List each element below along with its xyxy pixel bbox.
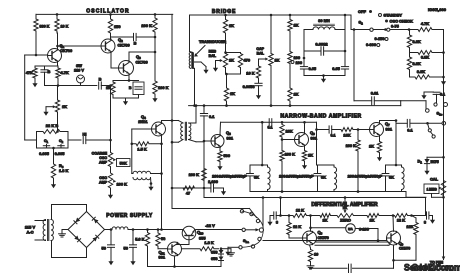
- wire Q2 emitter to Q3 base: [111, 53, 119, 69]
- diode D1 IN75: [418, 159, 440, 168]
- svg-text:OSC: OSC: [99, 176, 107, 180]
- svg-text:CK760: CK760: [136, 60, 148, 65]
- potentiometer CAL: [430, 176, 446, 197]
- svg-text:2N81: 2N81: [138, 119, 148, 124]
- node 12K node left: [288, 214, 291, 217]
- capacitor B osc1: [41, 66, 51, 86]
- svg-text:OFF: OFF: [358, 9, 367, 14]
- node Q4 base rail: [131, 143, 134, 146]
- transistor Q3: [119, 54, 148, 76]
- wire T2 secondary bottom: [189, 140, 204, 142]
- wire diff bottom: [311, 267, 348, 269]
- node bridge rail junctions: [224, 14, 346, 17]
- svg-text:1K: 1K: [294, 23, 299, 28]
- svg-text:100: 100: [296, 60, 303, 65]
- svg-text:653: 653: [211, 256, 218, 261]
- wire Q2 collector: [110, 38, 112, 41]
- ground transducer: [203, 67, 208, 74]
- transformer power primary: [43, 220, 45, 241]
- resistor 1K Q6 emitter: [302, 146, 313, 162]
- wire diff phase line: [263, 239, 387, 242]
- wire Q1 base: [25, 54, 48, 56]
- svg-text:1K: 1K: [106, 85, 111, 90]
- wire Q10 base: [177, 240, 190, 245]
- svg-text:470: 470: [244, 58, 251, 63]
- wire Q3 emitter gnd: [113, 95, 139, 99]
- potentiometer 1K osc: [46, 86, 67, 114]
- switch S1a arc: [242, 211, 263, 247]
- transistor Q1: [48, 43, 73, 63]
- svg-text:0.0082: 0.0082: [315, 42, 328, 47]
- wire T2 primary bottom: [171, 140, 183, 144]
- ground 0.0056: [256, 92, 261, 99]
- svg-text:500: 500: [224, 153, 231, 158]
- svg-text:OSC: OSC: [99, 156, 107, 160]
- svg-text:12K: 12K: [406, 224, 413, 229]
- rectifier bridge diamond: [68, 212, 105, 248]
- wire Q5 collector: [219, 122, 222, 134]
- svg-text:HI: HI: [83, 132, 87, 137]
- node choke junctions: [110, 228, 163, 231]
- svg-text:CK760: CK760: [60, 48, 72, 53]
- wire transducer bottom: [193, 68, 195, 105]
- wire -12V out: [196, 229, 242, 231]
- ground 50 first: [108, 258, 113, 265]
- contact S1a c3: [256, 219, 259, 222]
- svg-text:NARROW-BAND AMPLIFIER: NARROW-BAND AMPLIFIER: [280, 114, 361, 120]
- potentiometer OSC AMP 100K: [99, 170, 127, 192]
- wire Q9 base: [386, 238, 388, 241]
- svg-text:B: B: [134, 41, 137, 46]
- node tank1 feed: [261, 121, 264, 124]
- resistor 470: [238, 53, 250, 70]
- ground 0.05 caps: [321, 76, 326, 83]
- svg-text:0-100: 0-100: [359, 227, 369, 232]
- wire Q1 emitter node: [35, 62, 58, 66]
- resistor 1K diff right: [366, 214, 393, 223]
- svg-text:1K: 1K: [308, 153, 313, 158]
- svg-text:5K: 5K: [321, 175, 326, 180]
- wire tank left leg: [303, 30, 305, 49]
- resistor 10K bridge: [246, 59, 260, 83]
- svg-text:3.3K: 3.3K: [413, 61, 421, 66]
- ground 8 right: [430, 216, 435, 224]
- capacitor 0.0056: [243, 83, 263, 92]
- resistor 3.3K v2: [407, 53, 421, 78]
- capacitor B Q2 out: [111, 33, 156, 45]
- wire right rail: [443, 30, 445, 260]
- resistor 330K: [34, 14, 50, 33]
- ground Q8 emitter: [307, 264, 314, 270]
- svg-text:100 K: 100 K: [285, 152, 296, 157]
- svg-text:RES: RES: [209, 50, 217, 54]
- svg-text:1K: 1K: [370, 218, 375, 223]
- wire interstage rail1: [221, 121, 317, 123]
- wire emitter node: [113, 79, 139, 82]
- resistor 500 Q5 emitter: [218, 148, 230, 164]
- wire emitter coupling: [315, 242, 390, 245]
- wire oscillator top rail: [36, 13, 173, 15]
- transistor Q10: [182, 226, 206, 240]
- node twin-T bottom junction: [52, 147, 55, 150]
- svg-text:12 K: 12 K: [296, 208, 304, 213]
- svg-text:12 K: 12 K: [293, 224, 301, 229]
- svg-text:6.8K: 6.8K: [421, 55, 429, 60]
- svg-text:10 K: 10 K: [61, 25, 69, 29]
- svg-text:0.1: 0.1: [209, 114, 215, 119]
- tank circuit 2 200uuF 5K: [279, 165, 336, 192]
- wire Q7 collector: [380, 119, 398, 123]
- transformer T2 coupling: [179, 121, 191, 141]
- capacitor 50 second: [124, 230, 137, 260]
- potentiometer COARSE OSC AMP 50K: [92, 151, 117, 170]
- contact 0-300: [366, 42, 380, 47]
- svg-text:47: 47: [186, 191, 190, 196]
- svg-text:330 K: 330 K: [40, 25, 50, 29]
- wire transducer ground stub: [195, 62, 207, 67]
- svg-text:1K: 1K: [229, 58, 234, 63]
- wire cap to osc amp rail: [86, 139, 111, 141]
- svg-text:5K: 5K: [254, 175, 259, 180]
- wire bridge mid bottoms: [225, 68, 240, 76]
- wire Q6 collector: [303, 121, 306, 133]
- svg-text:100 K: 100 K: [189, 172, 200, 177]
- svg-text:CK760: CK760: [118, 43, 130, 48]
- switch S2 wire: [351, 20, 409, 32]
- svg-text:0.01: 0.01: [371, 91, 379, 96]
- svg-text:K=X1,000: K=X1,000: [428, 7, 447, 12]
- svg-text:Q8: Q8: [318, 230, 323, 236]
- svg-text:200 K: 200 K: [141, 23, 152, 28]
- wire Q4 emitter rail: [160, 136, 163, 230]
- resistor 12K horiz right: [393, 214, 412, 223]
- diode bridge TR: [92, 217, 98, 223]
- wire to osc rail: [101, 85, 110, 87]
- ground right rail top: [441, 78, 446, 85]
- svg-text:S1a: S1a: [243, 238, 249, 244]
- arrow -12V osc rail: [152, 95, 157, 102]
- resistor 100K osc: [153, 80, 169, 95]
- node Q5 base: [203, 140, 206, 143]
- svg-text:5K: 5K: [389, 175, 394, 180]
- svg-text:1K: 1K: [229, 23, 234, 28]
- svg-text:CAP: CAP: [256, 47, 264, 51]
- wire oscillator long rail: [171, 14, 173, 188]
- wire 330K to base node: [35, 33, 37, 55]
- resistor 1K Q7 emitter: [369, 136, 382, 154]
- ground S1c cap: [421, 92, 426, 99]
- svg-text:50: 50: [124, 246, 129, 251]
- node stage3 base node: [354, 128, 359, 131]
- wire left rail: [25, 55, 37, 140]
- svg-text:301: 301: [159, 255, 166, 260]
- resistor 47K: [26, 66, 37, 80]
- capacitor 0.1 output: [407, 119, 413, 132]
- capacitor 2000: [204, 179, 224, 192]
- wire diff input riser: [279, 198, 282, 217]
- resistor 1K bridge right-top: [288, 15, 299, 38]
- diode bridge TL: [74, 218, 80, 224]
- capacitor 0.05 right: [332, 66, 348, 76]
- svg-text:47K: 47K: [26, 70, 33, 75]
- resistor 10K: [55, 14, 69, 33]
- svg-text:STANDBY: STANDBY: [384, 13, 403, 18]
- svg-text:110 V: 110 V: [74, 68, 84, 73]
- contact S1c right: [442, 122, 446, 126]
- svg-text:0-150: 0-150: [375, 36, 385, 41]
- transformer T1 feedback winding: [132, 171, 163, 185]
- node emitter bottom: [57, 84, 60, 87]
- svg-text:A-C: A-C: [26, 230, 33, 235]
- tank circuit 3 200uuF 5K: [348, 165, 404, 192]
- wire Q11 collector: [177, 243, 178, 245]
- ground at 1K pot wiper: [43, 109, 48, 116]
- section label DIFFERENTIAL AMPLIFIER: [311, 202, 378, 208]
- ground S1a: [225, 249, 230, 256]
- potentiometer ZERO 1K: [336, 198, 366, 223]
- svg-text:10 K: 10 K: [246, 71, 254, 76]
- svg-text:1K: 1K: [294, 92, 299, 97]
- svg-text:S1c: S1c: [437, 111, 443, 117]
- wire pot to twin-T: [56, 113, 59, 133]
- resistor 3.3K v1: [407, 30, 421, 53]
- wire Q6 base: [281, 138, 295, 141]
- wire cap bal bottom: [270, 66, 272, 106]
- svg-text:8: 8: [276, 220, 279, 225]
- resistor 200K: [141, 14, 157, 37]
- wire 0.05 bottom link: [304, 74, 345, 77]
- wire Q9 feedback: [392, 235, 416, 262]
- wire T2 secondary top riser: [189, 104, 198, 123]
- resistor 100K stage1 body: [202, 160, 206, 188]
- node osc check joins bridge rail: [400, 101, 402, 106]
- resistor 4.7K: [408, 21, 444, 32]
- wire supply bottom: [148, 246, 222, 267]
- svg-text:3.3K: 3.3K: [417, 69, 425, 74]
- resistor 10 Q8 emitter: [308, 245, 318, 264]
- node 47 junction: [203, 187, 206, 190]
- ground res bal wiper: [213, 65, 218, 72]
- wire tank3 feed: [395, 121, 398, 167]
- wire Q9 collector: [392, 216, 395, 232]
- resistor 150: [108, 14, 120, 39]
- svg-text:8: 8: [424, 220, 427, 225]
- svg-text:653: 653: [211, 250, 218, 255]
- resistor R3 1.8K: [51, 148, 68, 181]
- capacitor 8 left: [272, 212, 289, 225]
- node 12K right node: [410, 214, 413, 217]
- transistor Q2: [101, 37, 130, 53]
- svg-text:IN75: IN75: [431, 159, 440, 164]
- wire Q4 base rail down: [131, 144, 133, 174]
- svg-text:12 K: 12 K: [397, 218, 405, 223]
- wire Q1 collector to 10K: [57, 33, 59, 49]
- capacitor 0.1 input stage1: [200, 104, 215, 188]
- node D1 junction: [442, 156, 445, 159]
- wire 200K rail down: [154, 37, 156, 80]
- wire output coupling: [396, 122, 407, 124]
- svg-text:Q9: Q9: [399, 241, 404, 247]
- wire Q9 emitter: [393, 245, 395, 268]
- resistor 5.6K: [135, 230, 150, 267]
- contact 0-150: [375, 36, 388, 41]
- capacitor 0.01: [354, 91, 401, 105]
- label S1c: [437, 111, 443, 117]
- wire osc amp select: [172, 188, 257, 218]
- svg-text:MA: MA: [348, 227, 353, 231]
- resistor 6.8K: [410, 51, 445, 60]
- svg-text:1K: 1K: [369, 144, 374, 149]
- switch S1a pole: [243, 228, 264, 244]
- wire Q4 base: [132, 129, 152, 144]
- diode 653 upper: [211, 249, 224, 255]
- resistor 12K horiz left: [289, 208, 311, 218]
- svg-text:10K: 10K: [286, 129, 293, 134]
- svg-text:C2: C2: [59, 139, 64, 144]
- wire transformer primary leads: [35, 221, 44, 241]
- diode bridge BR: [93, 235, 99, 241]
- contact STANDBY: [379, 13, 403, 18]
- capacitor C2 0.005: [55, 139, 66, 156]
- wire tank left leg lower: [303, 51, 306, 66]
- watermark: [404, 263, 460, 273]
- ground Q3 emitter: [123, 98, 128, 105]
- svg-text:1 MEG: 1 MEG: [427, 188, 438, 192]
- node bridge out left: [225, 104, 228, 107]
- tank circuit 1 200uuF 5K: [212, 165, 270, 192]
- ground 50 second: [130, 258, 135, 265]
- svg-text:100 K: 100 K: [346, 143, 357, 148]
- wire osc check vertical: [353, 28, 356, 101]
- node Q9 collector top: [392, 214, 395, 217]
- svg-text:10: 10: [314, 252, 318, 257]
- section label OSCILLATOR: [86, 9, 130, 15]
- svg-text:0.05: 0.05: [309, 66, 317, 71]
- node diff rail junctions: [262, 196, 347, 199]
- contact S1a feed: [242, 228, 245, 231]
- wire tank right leg: [344, 30, 347, 67]
- resistor 56: [156, 230, 166, 249]
- svg-text:1K: 1K: [275, 58, 280, 63]
- svg-text:100 K: 100 K: [158, 85, 169, 90]
- svg-text:150: 150: [114, 24, 121, 29]
- potentiometer CAP BAL 1K: [256, 15, 279, 67]
- diode bridge BL: [74, 236, 80, 242]
- capacitor HI coupling: [83, 132, 87, 144]
- capacitor diff bottom: [349, 264, 394, 272]
- section label NARROW-BAND AMPLIFIER: [280, 114, 361, 120]
- wire Q3 emitter: [128, 75, 130, 81]
- node top rail junctions: [56, 13, 157, 16]
- wire transducer arrow: [194, 46, 205, 57]
- svg-text:4.7K: 4.7K: [421, 21, 429, 26]
- svg-text:OSCILLATOR: OSCILLATOR: [86, 9, 130, 15]
- wire Q3 collector: [129, 51, 156, 62]
- resistor 100K stage1 bias: [189, 172, 200, 177]
- wire osc amp rail: [110, 86, 112, 152]
- transducer coil: [189, 39, 226, 68]
- svg-text:ZERO: ZERO: [340, 218, 351, 223]
- box 50K: [117, 159, 131, 167]
- wire bridge left leg: [189, 15, 191, 52]
- wire 47 link: [171, 187, 204, 190]
- svg-text:BAL: BAL: [209, 54, 217, 58]
- box 1 MEG: [424, 184, 445, 199]
- resistor 1.5K: [132, 142, 162, 152]
- svg-text:301: 301: [227, 136, 234, 141]
- wire secondary loop: [52, 205, 87, 258]
- transformer power core: [48, 220, 49, 241]
- transistor Q6: [295, 130, 318, 147]
- svg-text:200&#956;&#956;F: 200&#956;&#956;F: [212, 174, 247, 179]
- label 0-75: [391, 24, 400, 29]
- capacitor 0.0082: [304, 42, 345, 56]
- svg-text:BRIDGE: BRIDGE: [212, 9, 236, 15]
- wire NB bottom rail: [250, 190, 426, 197]
- wire tank1 feed: [261, 122, 264, 166]
- ground Q5 emitter: [217, 163, 222, 170]
- label TO PEN: [430, 257, 445, 265]
- svg-text:TRANSDUCER: TRANSDUCER: [199, 39, 226, 44]
- wire tank2 feed: [315, 122, 318, 165]
- ground 2000 cap: [221, 188, 226, 195]
- resistor 3.3K h: [410, 69, 445, 79]
- svg-text:POWER SUPPLY: POWER SUPPLY: [106, 213, 153, 219]
- wire supply rail: [105, 229, 113, 231]
- svg-text:0-75: 0-75: [391, 24, 400, 29]
- meter MA 0-100: [311, 224, 379, 241]
- wire stage3 input: [317, 129, 330, 131]
- resistor 100 bridge: [288, 38, 300, 66]
- svg-text:2,000: 2,000: [208, 179, 218, 184]
- capacitor 0.1 S1c: [424, 92, 445, 103]
- wire Q7 base: [358, 129, 370, 131]
- ground below R3: [51, 181, 56, 188]
- svg-text:AMP: AMP: [99, 161, 108, 165]
- svg-text:1.5 K: 1.5 K: [137, 147, 146, 152]
- potentiometer RES BAL 1K: [209, 50, 235, 70]
- svg-text:0.1: 0.1: [331, 134, 336, 138]
- contact S1c upper a: [434, 103, 437, 106]
- svg-text:SeekIC.com: SeekIC.com: [412, 263, 460, 273]
- resistor 12K vert right: [406, 216, 418, 237]
- contact S1a c4: [258, 237, 261, 240]
- ground below osc amp pot: [108, 192, 113, 199]
- contact S1c input: [426, 109, 430, 113]
- svg-text:50K: 50K: [120, 161, 127, 166]
- wire bottom node: [45, 85, 97, 87]
- svg-text:22 K B: 22 K B: [46, 123, 59, 128]
- resistor 47: [175, 186, 200, 196]
- twin-T network box 22K B: [37, 123, 69, 148]
- wire twin-T out: [68, 139, 81, 141]
- label K=X1000: [428, 7, 447, 12]
- svg-text:1K: 1K: [62, 104, 67, 109]
- svg-text:1K: 1K: [230, 91, 235, 96]
- ground 653 diodes: [221, 249, 234, 256]
- svg-text:0-300: 0-300: [366, 42, 376, 47]
- wire Q11 emitter: [173, 256, 176, 268]
- contact S1a c5: [251, 245, 254, 248]
- contact OSC CHECK: [385, 19, 413, 24]
- wire bridge top rail: [190, 15, 352, 30]
- resistor 100K stage2: [280, 140, 295, 193]
- transistor Q11: [159, 242, 182, 260]
- ground 8 left: [267, 216, 272, 226]
- wire S1a ground stub: [228, 247, 239, 248]
- lamp 3W 110V: [74, 63, 84, 86]
- transistor Q8: [303, 230, 329, 246]
